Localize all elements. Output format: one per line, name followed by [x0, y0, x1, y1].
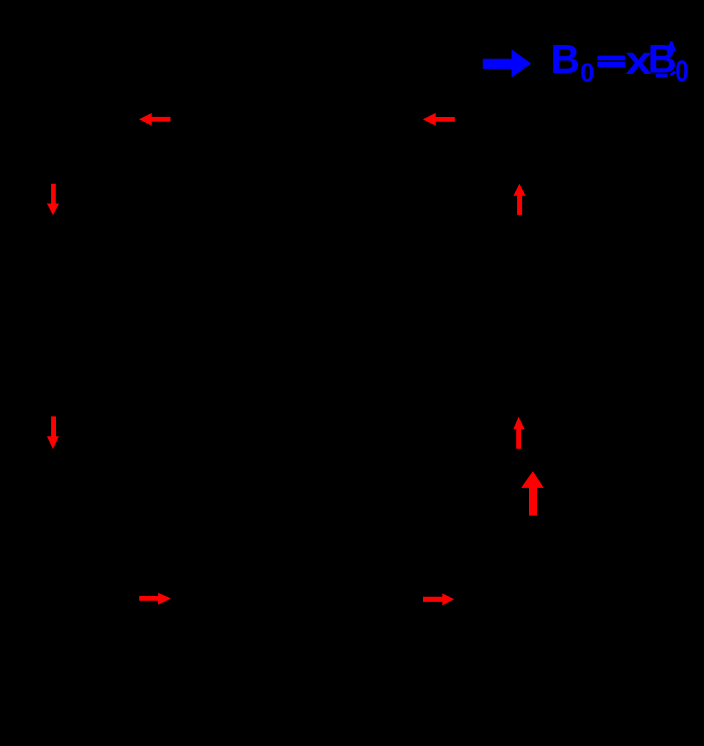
svg-text:0: 0 — [580, 59, 594, 87]
svg-text:0: 0 — [675, 54, 688, 88]
svg-text:B: B — [550, 36, 580, 82]
